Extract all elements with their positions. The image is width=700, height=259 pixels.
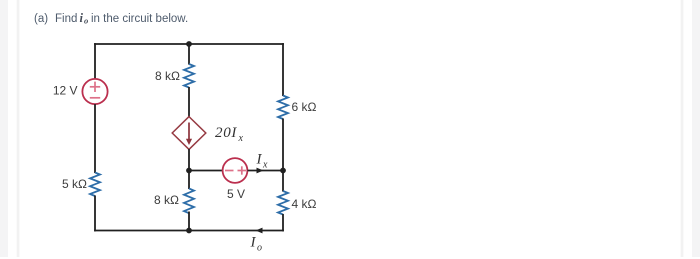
svg-text:Find: Find	[55, 13, 77, 25]
label Io	[250, 235, 263, 254]
arrow Ix	[257, 168, 264, 174]
wire middle horizontal right	[248, 170, 284, 172]
svg-text:12 V: 12 V	[53, 84, 78, 98]
svg-text:8 kΩ: 8 kΩ	[154, 193, 179, 207]
svg-text:in the circuit below.: in the circuit below.	[91, 13, 188, 25]
svg-text:x: x	[262, 160, 268, 171]
label 12 V	[53, 84, 78, 98]
label Ix	[256, 152, 269, 171]
svg-text:5 V: 5 V	[227, 187, 245, 201]
svg-text:i: i	[80, 11, 84, 25]
label 20Ix	[215, 125, 244, 144]
svg-text:6 kΩ: 6 kΩ	[292, 100, 317, 114]
svg-text:20I: 20I	[215, 125, 237, 141]
resistor 8k top	[184, 64, 194, 88]
label 8 kOhm bottom	[154, 193, 179, 207]
wire middle between diamond and node	[188, 149, 190, 189]
node right middle	[280, 168, 286, 174]
resistor 4k	[278, 191, 288, 215]
resistor 8k bottom	[184, 189, 194, 214]
label 5 kOhm	[62, 177, 87, 191]
svg-text:8 kΩ: 8 kΩ	[155, 69, 180, 83]
wire left upper	[94, 43, 96, 79]
wire middle upper	[188, 44, 190, 65]
resistor 5k	[90, 173, 100, 197]
label 6 kOhm	[292, 100, 317, 114]
wire middle lower	[188, 212, 190, 231]
wire right upper	[282, 43, 284, 96]
wire bottom	[94, 230, 284, 232]
wire right middle	[282, 119, 284, 192]
label 8 kOhm top	[155, 69, 180, 83]
svg-text:4 kΩ: 4 kΩ	[292, 197, 317, 211]
wire top	[94, 43, 284, 45]
svg-text:I: I	[250, 235, 257, 251]
label 5 V	[227, 187, 245, 201]
wire middle horizontal left	[189, 170, 223, 172]
resistor 6k	[278, 96, 288, 120]
problem text	[34, 11, 188, 26]
dependent source 20Ix diamond	[172, 117, 206, 150]
node top middle	[186, 41, 192, 47]
voltage source V1 12V	[82, 79, 107, 104]
svg-text:5 kΩ: 5 kΩ	[62, 177, 87, 191]
wire right lower	[282, 214, 284, 231]
arrow Io	[256, 228, 263, 234]
wire left lower	[94, 196, 96, 232]
node bottom middle	[186, 228, 192, 234]
svg-text:I: I	[256, 152, 263, 168]
wire middle between resistor and diamond	[188, 87, 190, 117]
node middle	[186, 168, 192, 174]
label 4 kOhm	[292, 197, 317, 211]
svg-text:(a): (a)	[34, 13, 48, 25]
svg-text:o: o	[257, 243, 262, 254]
wire left middle	[94, 104, 96, 173]
svg-text:x: x	[238, 133, 244, 144]
voltage source 5V	[223, 158, 248, 183]
svg-text:o: o	[84, 16, 88, 26]
